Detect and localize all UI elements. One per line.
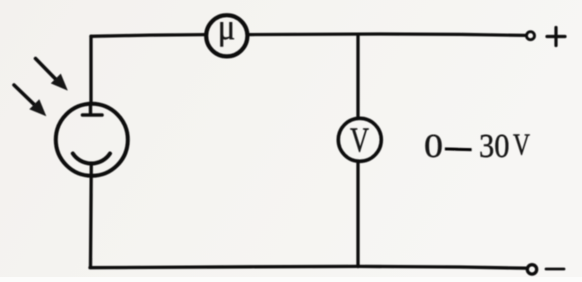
svg-text:30: 30: [479, 128, 510, 165]
svg-text:0: 0: [424, 128, 443, 165]
svg-text:V: V: [513, 127, 530, 162]
svg-text:V: V: [350, 121, 369, 160]
svg-text:μ: μ: [218, 7, 236, 47]
